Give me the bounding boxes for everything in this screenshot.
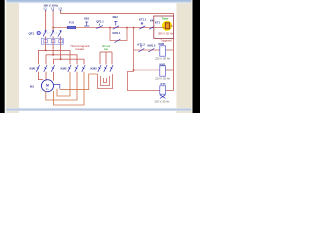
wire star nest outer	[98, 74, 113, 89]
wire star nest inner	[104, 78, 107, 83]
breaker QF1 pole 1	[43, 30, 46, 36]
node phase1 branch	[45, 50, 47, 52]
node latch left	[109, 27, 111, 29]
svg-text:3~: 3~	[46, 87, 50, 91]
svg-text:KM1.3: KM1.3	[148, 44, 156, 48]
wire into timer	[154, 26, 165, 28]
wire pole2 to thermal	[52, 36, 54, 38]
wire through thermal 2	[52, 38, 54, 44]
coil KM1	[160, 66, 166, 76]
wire KM2 out 1	[69, 72, 71, 77]
svg-text:KM3: KM3	[91, 66, 97, 70]
fuse FU1 wire through	[68, 27, 76, 29]
supply label 380V 50Hz	[44, 3, 59, 7]
wire phase2 bend to KM1	[46, 44, 53, 64]
coil KT1 cross	[160, 95, 165, 99]
wire coil A to rail	[166, 49, 174, 51]
wire latch branch	[110, 28, 127, 41]
wire pole3 to thermal	[60, 36, 62, 38]
svg-text:KM2: KM2	[159, 42, 165, 46]
node control tap	[52, 27, 54, 29]
svg-text:QF1: QF1	[29, 32, 35, 36]
wire star return	[60, 74, 98, 90]
breaker QF1 pole 2	[51, 30, 54, 36]
contactor KM1 contact 3	[51, 65, 54, 72]
right cream margin	[176, 0, 192, 113]
node latch right	[126, 27, 128, 29]
motor terminal link	[53, 85, 60, 89]
wire timer to rail	[170, 25, 174, 27]
svg-text:KT1: KT1	[161, 82, 167, 86]
phase labels L1 L2 L3	[44, 7, 63, 11]
wire coil C to rail	[166, 90, 174, 92]
fuse FU1	[68, 26, 76, 28]
wire pole1 to thermal	[45, 36, 47, 38]
phase arrows	[45, 10, 62, 11]
svg-text:breaker: breaker	[76, 47, 85, 51]
bottom blue strip	[6, 108, 191, 111]
wire delta loop 1	[46, 77, 77, 100]
svg-text:KT1: KT1	[155, 20, 161, 24]
start button SB2	[113, 21, 119, 29]
wire star bus leg 1	[99, 52, 101, 64]
wire delta loop 2	[54, 77, 84, 105]
aux contact KM1.1	[114, 39, 120, 43]
thermal overload block KK1	[41, 38, 63, 44]
node phase3 branch	[60, 59, 62, 61]
contactor KM2 contact 2	[75, 65, 78, 72]
aux contact KM1.3	[148, 48, 154, 52]
svg-text:KM2: KM2	[61, 66, 67, 70]
wire L3 to top bus	[61, 11, 174, 14]
wire star nest middle	[101, 76, 110, 86]
thermal element 1	[44, 40, 48, 43]
coil KM2	[160, 46, 166, 56]
contactor KM1 contact 2	[44, 65, 47, 72]
svg-text:220 V, 50 Hz: 220 V, 50 Hz	[155, 57, 170, 61]
timer KT1 body	[165, 23, 169, 29]
svg-text:SB2: SB2	[113, 15, 119, 19]
wire row C feed	[128, 70, 160, 91]
svg-text:KT1.1: KT1.1	[139, 17, 147, 21]
wire KM1 out 3 to motor	[53, 72, 55, 81]
svg-text:KT1.2: KT1.2	[138, 43, 146, 47]
page background	[0, 0, 200, 113]
wire right rail	[173, 13, 175, 90]
svg-text:Timer: Timer	[161, 17, 168, 21]
contactor KM2 contact 3	[82, 65, 85, 72]
wire phase1 bend to KM1	[39, 44, 46, 64]
annotation frame timer	[154, 16, 174, 38]
aux contact QF1.2	[96, 24, 103, 29]
white drawing canvas	[19, 0, 176, 113]
contactor KM1 contact 1	[36, 65, 39, 72]
top blue strip	[6, 0, 191, 3]
breaker QF1 pole 3	[58, 30, 61, 36]
wire phase1 branch to KM2	[46, 50, 70, 64]
wire phase3 branch to KM2	[61, 59, 84, 64]
svg-text:FU1: FU1	[69, 21, 75, 25]
motor M1 body	[42, 80, 54, 92]
right black bar	[192, 0, 200, 113]
wire star bus leg 3	[111, 52, 113, 64]
wire KM2 out 3	[83, 72, 85, 77]
svg-text:QF1.1: QF1.1	[96, 19, 104, 23]
wire KM2 out 2	[76, 72, 78, 77]
aux contact KM1.2	[149, 26, 155, 29]
timer contact KT1.2	[138, 45, 144, 52]
timer contact KT1.1	[139, 22, 145, 29]
thermal element 3	[59, 40, 63, 43]
wire KM1 out 2 to motor	[45, 72, 47, 81]
wire coil B to rail	[166, 69, 174, 71]
svg-text:M1: M1	[30, 84, 34, 88]
contactor KM3 contact 1	[98, 65, 101, 72]
svg-text:star: star	[104, 47, 108, 51]
node coil feed tap	[133, 27, 135, 29]
wire through thermal 3	[60, 38, 62, 44]
left black bar	[0, 0, 5, 113]
wire KM1 out 1 to motor	[39, 72, 44, 80]
wire through thermal 1	[45, 38, 47, 44]
wire coil feed riser	[133, 28, 135, 70]
wire phase2 branch to KM2	[53, 55, 77, 64]
wire star bus leg 2	[105, 52, 107, 64]
svg-text:KM1: KM1	[30, 66, 36, 70]
wire delta loop 3	[57, 77, 70, 96]
wire row A	[134, 49, 160, 51]
thermal element 2	[51, 40, 55, 43]
green note normal mode	[102, 44, 111, 51]
wire L2 drop	[52, 11, 54, 31]
left white edge line	[5, 0, 7, 113]
red note thermomagnetic breaker	[70, 44, 90, 51]
motor M1 text	[46, 84, 49, 88]
contactor KM3 contact 2	[104, 65, 107, 72]
wire star bus KM3	[100, 51, 112, 53]
wire L1 drop	[45, 11, 47, 31]
wire control line from L2	[53, 27, 154, 29]
coil KT1	[160, 86, 166, 94]
contactor KM2 contact 1	[68, 65, 71, 72]
wire phase3 bend to KM1	[54, 44, 61, 64]
wire row B	[134, 69, 160, 71]
svg-text:KM1.1: KM1.1	[113, 31, 121, 35]
svg-text:220 V, 50 Hz: 220 V, 50 Hz	[155, 99, 170, 103]
stop button SB1	[84, 22, 89, 26]
node phase2 branch	[52, 54, 54, 56]
contactor KM3 contact 3	[110, 65, 113, 72]
node row B	[133, 69, 135, 71]
timer KT1 highlight	[162, 21, 172, 31]
right white edge line	[191, 0, 192, 113]
svg-text:220 V, 50 Hz: 220 V, 50 Hz	[155, 77, 170, 81]
svg-text:380 V, 50 Hz: 380 V, 50 Hz	[158, 32, 173, 36]
svg-text:SB1: SB1	[84, 16, 90, 20]
breaker QF1 handle circle	[37, 31, 40, 34]
left cream margin	[5, 0, 19, 113]
breaker QF1 linkage	[40, 32, 57, 34]
